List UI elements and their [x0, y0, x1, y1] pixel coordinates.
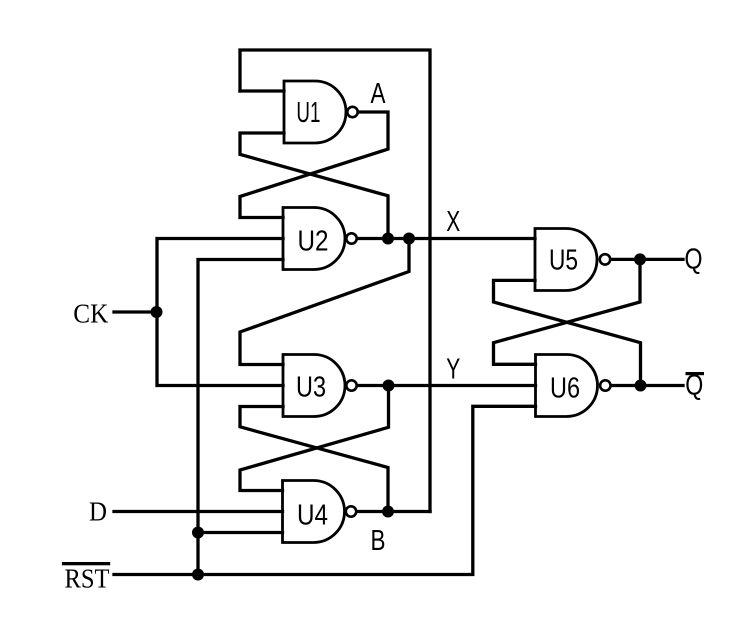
- bubble U3 output: [346, 380, 356, 390]
- nand gate U3: [283, 355, 345, 417]
- junction node X dot 2: [403, 233, 415, 245]
- wire CK vertical to U2 middle input: [157, 239, 283, 313]
- wire Q output: [612, 258, 684, 261]
- wire CK input: [114, 310, 157, 313]
- nand gate U5: [535, 229, 597, 291]
- wire U1 bottom input from node X: [240, 133, 388, 239]
- wire RST vertical branch to U2 bottom input: [198, 260, 283, 575]
- junction RST rail dot: [192, 569, 204, 581]
- wire RST branch to U4 bottom input: [198, 531, 283, 534]
- svg-text:X: X: [446, 206, 460, 238]
- wire node Y from U3 output to U6 middle input: [358, 384, 536, 387]
- svg-text:Q: Q: [685, 243, 703, 275]
- wire node X feedback to U3 top input: [240, 239, 409, 365]
- wire RST input rail to U6 bottom input: [114, 406, 536, 574]
- junction Q-bar dot: [635, 380, 647, 392]
- bubble U1 output: [347, 107, 357, 117]
- bubble U6 output: [600, 380, 610, 390]
- wire U1 top input: [240, 89, 284, 92]
- wire Q-bar feedback to U5 bottom input: [494, 280, 641, 385]
- svg-text:U6: U6: [550, 373, 580, 405]
- svg-text:RST: RST: [65, 563, 110, 594]
- wire Q feedback to U6 top input: [494, 259, 641, 364]
- svg-text:A: A: [371, 78, 387, 110]
- wire CK vertical to U3 middle input: [157, 312, 283, 386]
- svg-text:U3: U3: [296, 372, 326, 404]
- svg-text:D: D: [89, 496, 107, 527]
- junction Q dot: [634, 253, 646, 265]
- wire Q-bar output: [612, 384, 683, 387]
- overbar of RST: [62, 562, 110, 565]
- wire node Y feedback to U4 top input: [240, 386, 389, 491]
- junction node X dot 1: [382, 233, 394, 245]
- bubble U4 output: [346, 506, 356, 516]
- svg-text:U2: U2: [298, 226, 329, 258]
- overbar of Q-bar: [686, 372, 705, 375]
- junction RST to U4 dot: [192, 527, 204, 539]
- junction node Y dot: [383, 380, 395, 392]
- wire D input to U4 middle input: [114, 510, 283, 513]
- wire node B feedback to U3 bottom input: [240, 407, 388, 512]
- junction node B dot: [382, 506, 394, 518]
- nand gate U2: [283, 208, 345, 270]
- nand gate U6: [536, 355, 598, 417]
- svg-text:CK: CK: [73, 298, 108, 329]
- svg-text:U1: U1: [296, 97, 320, 129]
- wire node B from U4 output to feedback rail: [358, 510, 431, 513]
- svg-text:B: B: [371, 525, 386, 557]
- junction CK dot: [151, 306, 163, 318]
- wire node X from U2 output to U5 top input: [358, 237, 535, 240]
- svg-text:Y: Y: [446, 354, 460, 386]
- bubble U2 output: [346, 233, 356, 243]
- nand gate U1: [284, 81, 346, 143]
- svg-text:U4: U4: [297, 500, 328, 532]
- nand gate U4: [283, 481, 345, 543]
- wire top feedback rail from node B up and over to U1 input: [240, 50, 430, 512]
- svg-text:U5: U5: [549, 245, 578, 277]
- bubble U5 output: [600, 254, 610, 264]
- wire node A from U1 output to U2 top input: [240, 112, 388, 218]
